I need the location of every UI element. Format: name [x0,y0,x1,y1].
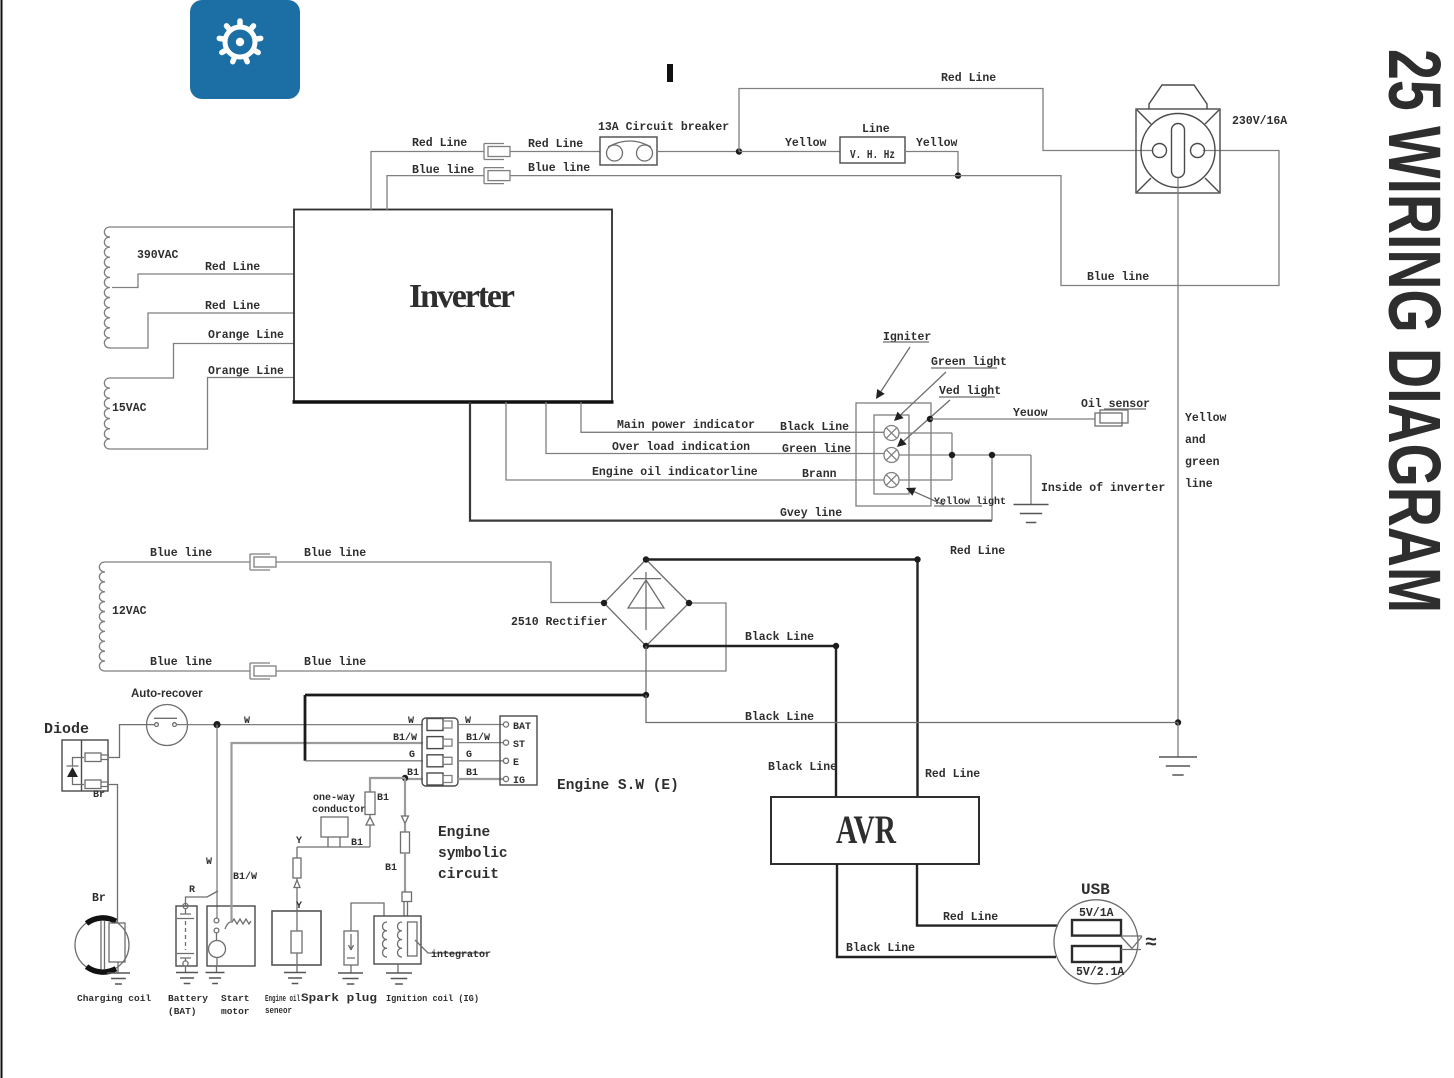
svg-text:line: line [1185,478,1213,491]
svg-text:Orange Line: Orange Line [208,329,284,342]
wire 390VAC top tap [110,226,294,228]
svg-text:Green line: Green line [782,443,851,456]
svg-text:Over load indication: Over load indication [612,441,750,454]
svg-text:Ignition coil (IG): Ignition coil (IG) [386,993,479,1004]
svg-text:W: W [465,716,471,727]
ground ignition coil [386,973,412,984]
svg-text:conductor: conductor [312,804,366,816]
svg-text:Brann: Brann [802,468,837,481]
wire connector to breaker Red Line [510,138,600,152]
svg-text:seneor: seneor [265,1006,292,1016]
svg-text:B1: B1 [351,838,363,849]
wire yellow branch left [739,137,840,152]
svg-text:BAT: BAT [513,722,531,733]
connector J4 [250,663,270,679]
svg-text:Br: Br [93,790,105,801]
wire Yeuow to oil sensor [930,407,1095,420]
wire earth yellow and green line [1178,178,1227,723]
ground inside of inverter [1014,455,1166,523]
wire rectifier negative ground bus Black Line [305,646,1178,724]
wire B1/W line [232,732,491,921]
ignition coil IG [374,892,491,1004]
wire diode to charging coil Br [92,785,118,924]
rectifier BR1 2510 [511,556,692,649]
ground start motor [206,966,225,984]
svg-text:Yeuow: Yeuow [1013,407,1048,420]
node blue line junction [955,172,961,178]
svg-text:13A Circuit breaker: 13A Circuit breaker [598,121,729,134]
svg-text:Blue line: Blue line [304,656,366,669]
wire AVR to USB Black Line [837,864,1056,957]
ground battery [176,966,198,984]
svg-text:B1/W: B1/W [393,732,417,744]
transformer winding 12VAC [99,562,146,671]
engine oil sensor [265,911,321,1016]
svg-text:Red Line: Red Line [941,72,996,85]
svg-text:Blue line: Blue line [150,656,212,669]
wire 15VAC top tap Orange Line [110,329,294,378]
svg-text:B1: B1 [407,768,419,779]
spark plug [301,931,377,1005]
svg-text:AVR: AVR [836,807,897,852]
svg-text:Green light: Green light [931,356,1007,369]
lamp red light [884,385,1001,463]
svg-text:Engine oil indicatorline: Engine oil indicatorline [592,466,758,479]
resistor chain B1 [351,778,405,849]
svg-text:Auto-recover: Auto-recover [131,688,203,700]
svg-text:green: green [1185,456,1220,469]
socket 230V/16A [1136,85,1287,193]
node earth junction [1175,719,1181,725]
svg-text:E: E [513,758,519,769]
svg-text:B1: B1 [385,863,397,874]
engine switch SW1 [500,716,679,794]
wire to rectifier left [276,547,604,603]
svg-text:W: W [206,857,212,868]
svg-text:≈: ≈ [1145,932,1157,955]
svg-text:Orange Line: Orange Line [208,365,284,378]
svg-text:integrator: integrator [431,949,491,961]
svg-text:Engine oil: Engine oil [265,994,300,1004]
svg-text:Red Line: Red Line [950,545,1005,558]
svg-text:15VAC: 15VAC [112,402,147,415]
lamp housing [874,415,909,494]
lamp yellow light [884,473,1006,509]
wire rectifier to AVR Red Line [646,545,1005,797]
connector block J5 [422,718,458,786]
wire inverter to connector Blue line [387,164,484,210]
svg-text:Red Line: Red Line [943,911,998,924]
svg-text:2510 Rectifier: 2510 Rectifier [511,616,608,629]
svg-text:ST: ST [513,740,525,751]
wire 390VAC bottom tap Red Line [110,300,294,348]
svg-text:W: W [408,716,414,727]
wire to rectifier right [276,603,726,671]
USB port [1054,881,1157,984]
svg-text:USB: USB [1081,881,1110,899]
svg-text:Yellow: Yellow [785,137,827,150]
transformer winding 15VAC [104,378,146,449]
svg-text:Black Line: Black Line [846,942,915,955]
svg-text:Inside of inverter: Inside of inverter [1041,482,1165,495]
svg-text:(BAT): (BAT) [168,1006,197,1017]
wire engine oil indicator Brann [506,402,884,481]
wire spark plug to ignition coil [351,903,384,931]
svg-text:Blue line: Blue line [150,547,212,560]
charging coil [75,918,151,1004]
wire AVR to USB Red Line [917,864,1058,926]
settings icon [190,0,300,99]
svg-text:Start: Start [221,993,250,1004]
wire Blue line run to socket [510,151,1279,286]
svg-text:Red Line: Red Line [528,138,583,151]
ground engine oil sensor [284,973,306,984]
AVR U2 [771,797,979,864]
svg-text:Red Line: Red Line [205,261,260,274]
svg-text:Black Line: Black Line [745,711,814,724]
wire auto-recover to diode [109,725,155,758]
svg-text:Battery: Battery [168,993,208,1004]
wire rectifier to AVR Black Line [646,631,839,797]
node oil sensor tap [927,416,933,422]
svg-text:5V/1A: 5V/1A [1079,907,1114,920]
svg-text:motor: motor [221,1006,250,1017]
svg-text:one-way: one-way [313,793,355,804]
marker I [667,64,673,82]
svg-text:12VAC: 12VAC [112,605,147,618]
svg-text:Diode: Diode [44,721,89,738]
wire W line [176,716,471,918]
svg-text:R: R [189,885,195,896]
svg-text:W: W [244,716,250,727]
svg-text:B1/W: B1/W [233,871,257,883]
svg-text:Ved light: Ved light [939,385,1001,398]
svg-text:Engine: Engine [438,825,490,841]
svg-text:and: and [1185,434,1206,447]
svg-text:Blue line: Blue line [1087,271,1149,284]
wire node bus y847 [297,846,370,848]
svg-text:Red Line: Red Line [205,300,260,313]
svg-text:Red Line: Red Line [925,768,980,781]
svg-text:390VAC: 390VAC [137,249,179,262]
svg-text:Inverter: Inverter [409,278,515,315]
wire inverter to connector Red Line [371,137,484,210]
svg-text:Main power indicator: Main power indicator [617,419,755,432]
wire main power indicator Black Line [581,402,884,434]
start motor M [207,906,255,1017]
svg-text:25 WIRING DIAGRAM: 25 WIRING DIAGRAM [1373,49,1454,613]
wires block to switch [458,725,503,761]
label engine symbolic circuit [438,825,508,883]
svg-text:Blue line: Blue line [304,547,366,560]
svg-text:Spark plug: Spark plug [301,993,377,1005]
node red junction [736,148,742,154]
wire over load indication Green line [546,402,884,456]
wire 390VAC mid tap Red Line [112,261,294,288]
wire yellow branch right [905,137,958,176]
ground charging coil [107,962,130,984]
svg-text:Blue line: Blue line [528,162,590,175]
svg-text:B1: B1 [466,768,478,779]
connector J3 [250,554,270,570]
diode D1 [44,721,109,801]
svg-text:5V/2.1A: 5V/2.1A [1076,966,1124,979]
ground spark plug [338,973,363,984]
svg-text:G: G [409,750,415,761]
wire breaker to junction [657,151,739,153]
svg-text:Br: Br [92,892,106,905]
svg-text:Charging coil: Charging coil [77,993,151,1004]
connector J1 red [484,144,504,160]
wire lamp bus [899,433,1031,480]
wire G line [305,695,472,761]
resistor chain Y [293,836,302,912]
svg-text:Line: Line [862,123,890,136]
wire 15VAC bottom tap Orange Line [110,365,294,449]
wire R battery feed [186,885,219,906]
svg-text:Yellow: Yellow [1185,412,1227,425]
svg-text:B1: B1 [377,793,389,804]
one-way conductor [312,793,366,847]
wire Gvey line [470,402,992,521]
wire B1 line [402,768,478,781]
igniter box [856,331,931,506]
svg-text:Yellow: Yellow [916,137,958,150]
connector J2 blue [484,168,504,184]
wire Red Line top run to socket [739,72,1153,152]
oil sensor [1081,398,1150,426]
inverter U1 [293,210,614,403]
svg-text:Gvey line: Gvey line [780,507,842,520]
svg-text:IG: IG [513,776,525,787]
ground mains earth [1159,723,1197,776]
svg-text:Blue line: Blue line [412,164,474,177]
wire 12VAC bottom Blue line [105,656,250,671]
auto-recover switch [131,688,203,746]
svg-text:Y: Y [296,836,302,847]
svg-text:Black Line: Black Line [745,631,814,644]
svg-text:G: G [466,750,472,761]
svg-text:Black Line: Black Line [780,421,849,434]
circuit breaker CB1 13A [598,121,729,165]
svg-text:V. H. Hz: V. H. Hz [850,149,895,162]
svg-text:Red Line: Red Line [412,137,467,150]
svg-text:Black Line: Black Line [768,761,837,774]
svg-text:circuit: circuit [438,867,499,883]
battery BAT [168,903,208,1017]
svg-text:symbolic: symbolic [438,846,508,862]
wire B1 to ignition coil [385,778,410,892]
lamp green light [884,356,1007,441]
meter V.H.Hz [840,123,905,163]
svg-text:230V/16A: 230V/16A [1232,115,1287,128]
transformer winding 390VAC [104,227,178,348]
wire 12VAC top Blue line [105,547,250,562]
svg-text:Engine S.W (E): Engine S.W (E) [557,778,679,794]
